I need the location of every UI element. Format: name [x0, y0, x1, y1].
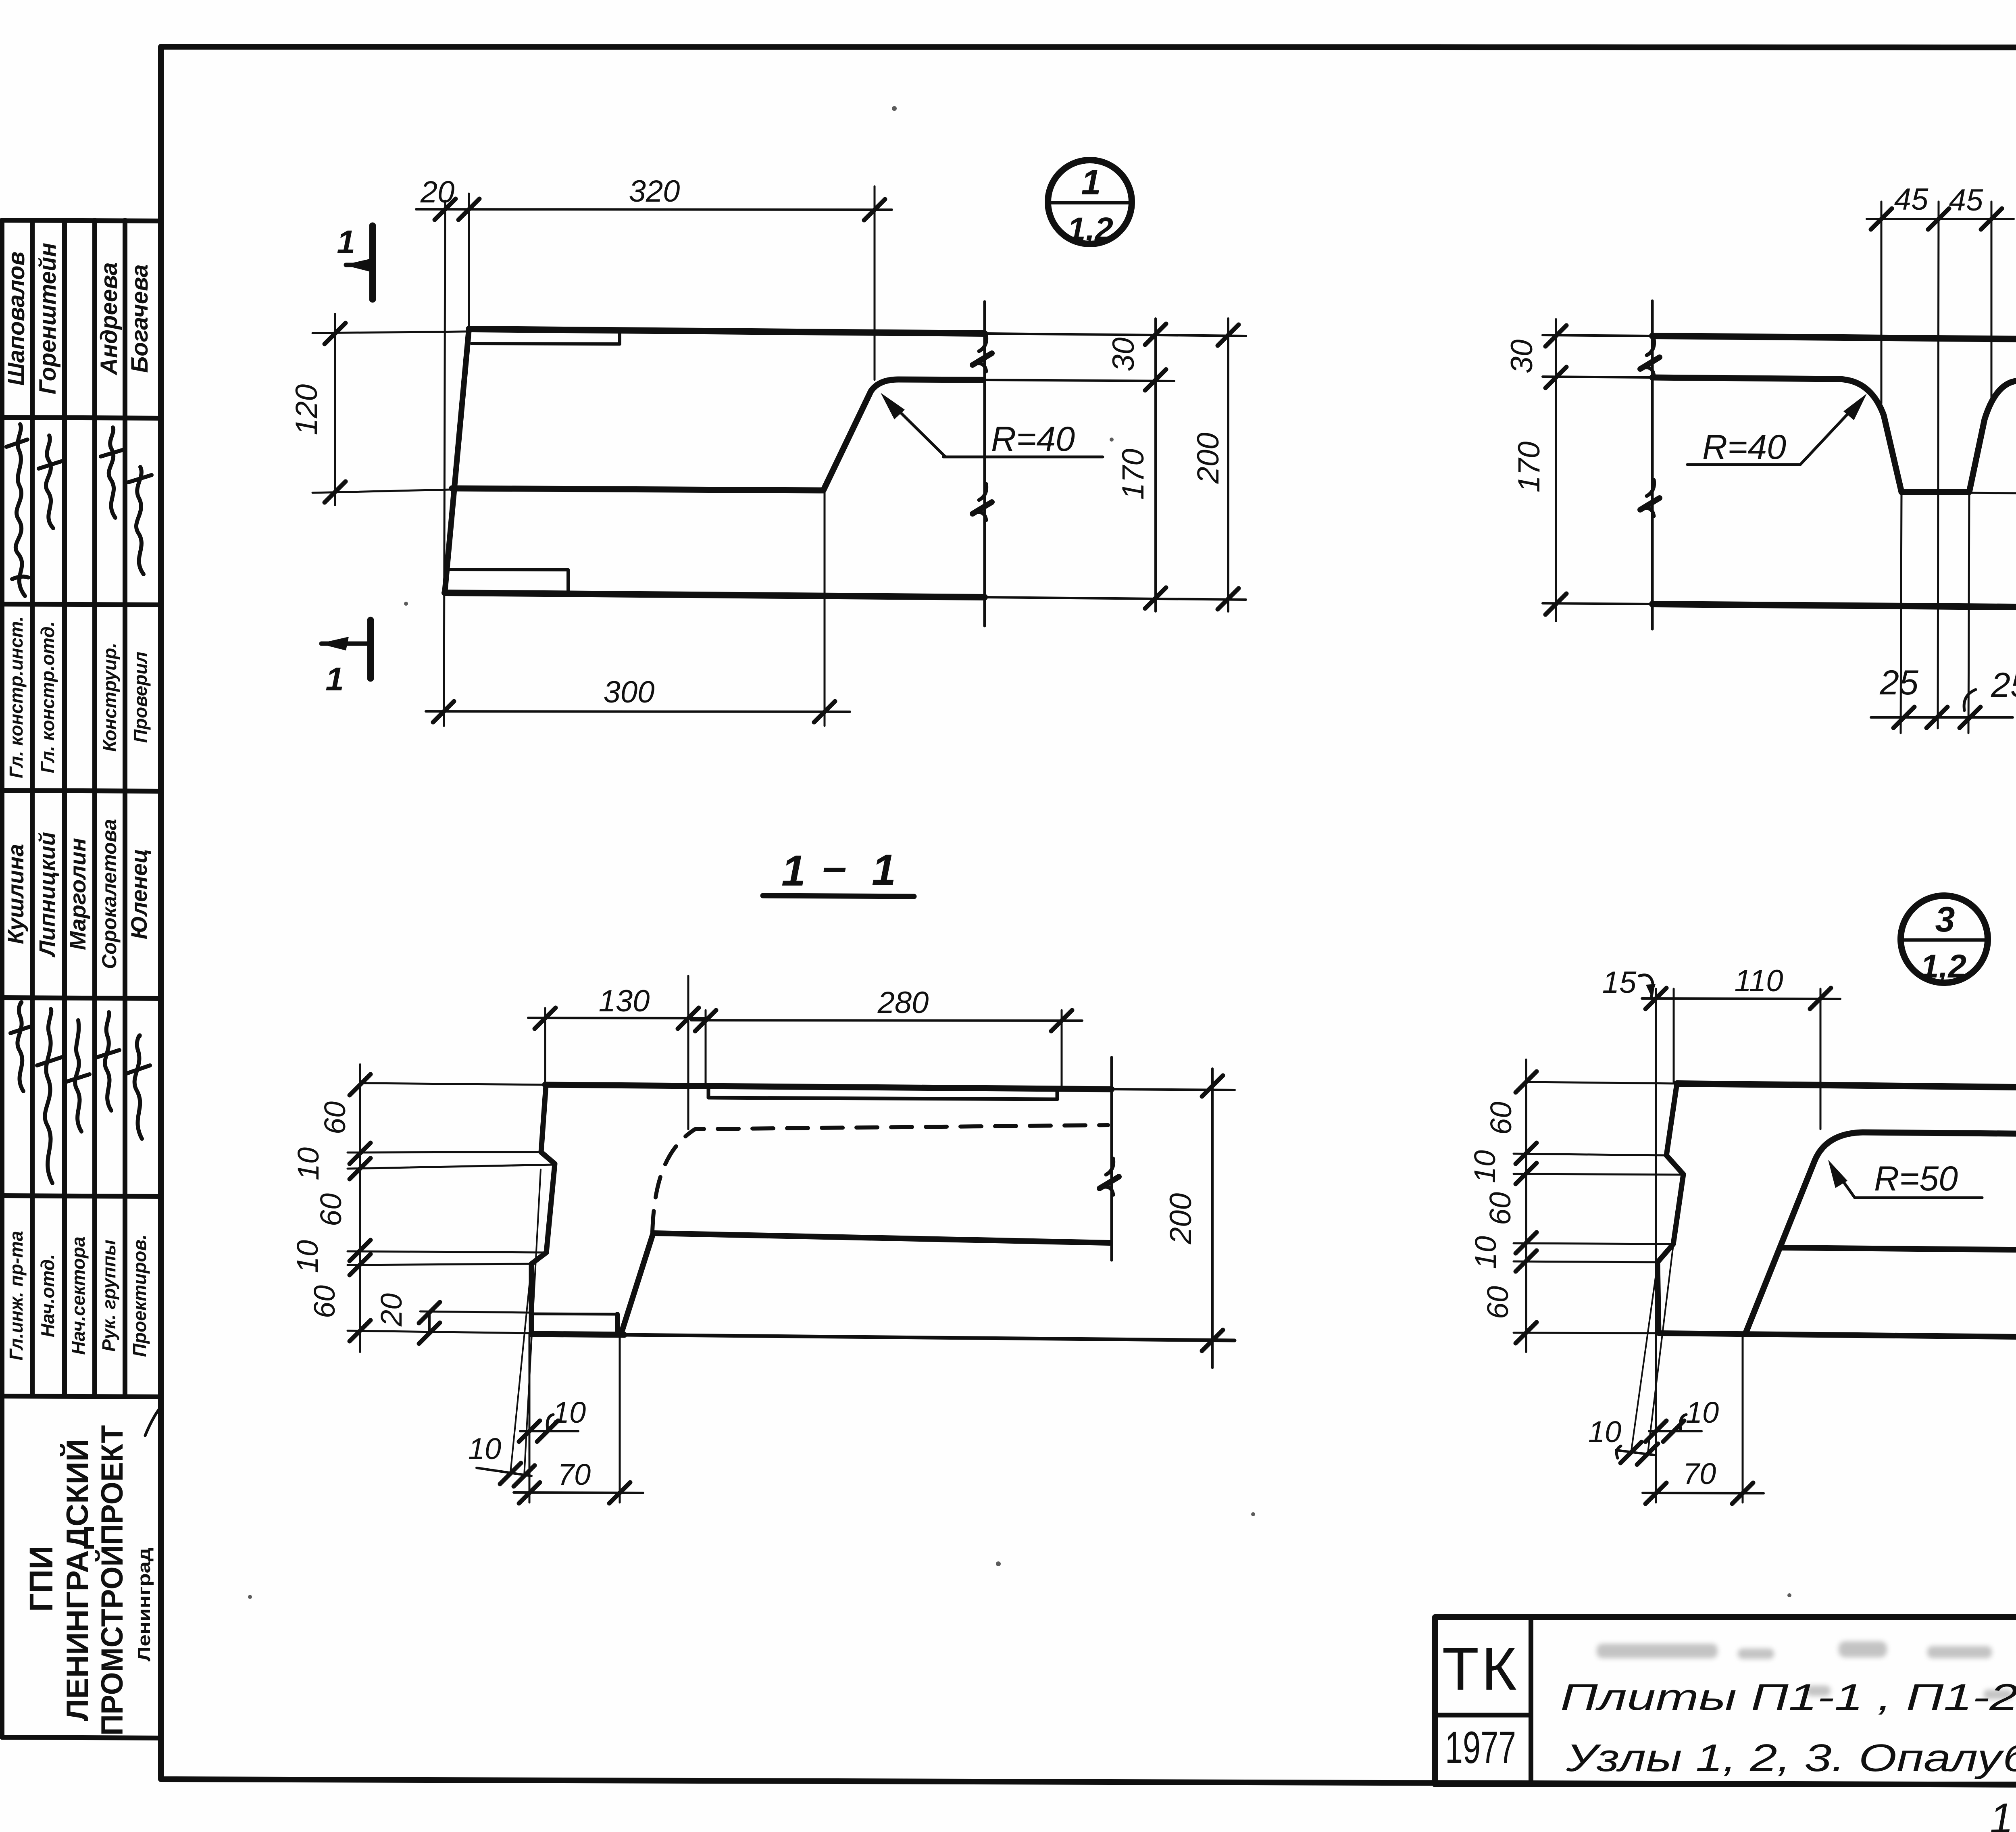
break line with zigzags: [973, 302, 992, 626]
leader arrow R=40 left: [1687, 394, 1867, 465]
extension line top-left corner: [1673, 989, 1675, 1082]
svg-text:Юленец: Юленец: [126, 849, 152, 940]
svg-text:1: 1: [325, 661, 344, 698]
section middle surface: [653, 1233, 1110, 1243]
plate left edge: [445, 329, 469, 593]
leader hook of 15: [1639, 975, 1656, 997]
svg-text:10: 10: [1468, 1150, 1502, 1183]
dimension text 300: [604, 675, 655, 709]
foot step: [531, 1314, 617, 1334]
dimension line 45 45: [1867, 208, 2014, 229]
hook of lower 10: [1616, 1446, 1621, 1458]
label 70: [558, 1458, 591, 1491]
detail circle 3: [1901, 896, 1988, 983]
signatures group 1: [10, 1002, 150, 1183]
vertical extension 70 right: [1742, 1334, 1744, 1503]
svg-text:10: 10: [468, 1432, 501, 1465]
svg-text:3: 3: [1935, 899, 1955, 939]
top rabbet lip: [472, 332, 620, 344]
label 200: [1164, 1193, 1198, 1245]
leader arrow R=50: [1828, 1160, 1982, 1198]
svg-text:130: 130: [599, 984, 650, 1018]
svg-text:Ленинград: Ленинград: [134, 1548, 154, 1661]
svg-text:ЛЕНИНГРАДСКИЙ: ЛЕНИНГРАДСКИЙ: [60, 1439, 95, 1721]
bottom-left step: [446, 569, 568, 594]
right break edge with zigzag: [1100, 1057, 1119, 1260]
svg-text:1: 1: [1081, 162, 1101, 202]
left extension lines: [348, 1152, 555, 1333]
left dimension line 30/170: [1545, 319, 1566, 621]
svg-text:1: 1: [781, 846, 806, 895]
TK logo: [1442, 1635, 1519, 1703]
names column 2: [3, 243, 153, 394]
label R=40 left: [1702, 428, 1786, 467]
plate top surface (узел 1): [469, 329, 1246, 336]
dimension text 280: [877, 986, 929, 1020]
svg-text:R=40: R=40: [1702, 428, 1786, 467]
rib slant edge: [621, 1233, 653, 1334]
svg-text:R=40: R=40: [991, 420, 1075, 459]
svg-text:ГПИ: ГПИ: [23, 1546, 60, 1612]
drawing title line 1: [1560, 1677, 2016, 1718]
faint stamp smudge: [1597, 1640, 2016, 1699]
section marker label 1 top: [337, 224, 355, 261]
dimension line 15/110: [1642, 988, 1840, 1009]
extension line 320 right end: [874, 186, 876, 380]
svg-text:10: 10: [291, 1240, 324, 1273]
section marker label 1 bottom: [325, 661, 344, 698]
dimension text 110: [1734, 964, 1783, 998]
label 200: [1191, 433, 1225, 484]
svg-text:Липницкий: Липницкий: [34, 832, 60, 958]
svg-text:60: 60: [1481, 1286, 1514, 1319]
section title 1-1: [781, 842, 896, 895]
svg-text:200: 200: [1191, 433, 1225, 484]
job titles column 2: [6, 616, 151, 778]
section title underline: [763, 896, 914, 896]
label R=50: [1874, 1159, 1958, 1198]
dimension texts 45 45: [1894, 182, 1983, 217]
dimension line 130: [528, 1008, 705, 1029]
svg-text:60: 60: [1484, 1102, 1518, 1135]
dimension 20 foot height: [419, 1302, 529, 1344]
svg-text:15: 15: [1602, 965, 1637, 1000]
svg-text:70: 70: [558, 1458, 591, 1491]
left extension lines: [1514, 1154, 1683, 1333]
label 30 left: [1505, 340, 1539, 374]
table grid lines: [2, 220, 161, 1738]
svg-text:110: 110: [1734, 964, 1783, 998]
right dimension line 200: [1202, 1069, 1223, 1368]
detail circle 1 numbers: [1067, 162, 1113, 248]
svg-text:R=50: R=50: [1874, 1159, 1958, 1198]
label R=40: [991, 420, 1075, 459]
dimension line 20 / 320: [416, 199, 892, 220]
title block outer border: [1435, 1617, 2016, 1784]
svg-text:10: 10: [553, 1396, 586, 1429]
left chain labels: [1468, 1102, 1518, 1319]
hook of upper 10: [1680, 1415, 1686, 1429]
svg-text:16189-02: 16189-02: [1989, 1791, 2016, 1832]
svg-text:70: 70: [1683, 1457, 1716, 1490]
dimension text 20: [420, 175, 455, 209]
dimension line 70: [1643, 1483, 1764, 1504]
svg-text:Сорокалетова: Сорокалетова: [98, 819, 121, 969]
svg-text:1,2: 1,2: [1067, 211, 1113, 248]
plate bottom surface (узел 3): [1659, 1333, 2016, 1339]
right dimension line 30/170: [1145, 319, 1166, 611]
label 170 left: [1512, 442, 1546, 493]
extension line top-left corner: [468, 194, 470, 327]
dimension 120 left: [312, 314, 468, 505]
svg-text:25: 25: [1879, 663, 1919, 702]
stray pen stroke near Проектиров: [145, 1407, 160, 1436]
extension lines 25 dimension: [1901, 493, 1969, 733]
section left edge profile: [531, 1086, 555, 1334]
section top surface: [362, 1083, 1235, 1090]
detail circle 3 numbers: [1920, 899, 1966, 985]
dimension text 320: [629, 174, 680, 208]
plate middle surface: [452, 488, 823, 490]
plate left edge profile (узел 3): [1658, 1084, 1683, 1333]
plate bottom surface: [445, 593, 1246, 600]
svg-text:ПРОМСТРОЙПРОЕКТ: ПРОМСТРОЙПРОЕКТ: [95, 1425, 129, 1736]
svg-text:60: 60: [318, 1101, 352, 1134]
slanted extensions to bottom dims: [510, 1169, 541, 1476]
dimension line 10 upper: [1645, 1421, 1702, 1442]
plate top surface (узел 2): [1543, 335, 2016, 342]
slant to ledge with fillet R40: [823, 379, 1174, 490]
label 170: [1116, 449, 1150, 500]
svg-text:Богачева: Богачева: [127, 264, 153, 373]
svg-text:Марголин: Марголин: [65, 838, 90, 950]
plate soffit with joint notch: [1543, 377, 2016, 492]
svg-text:Проверил: Проверил: [130, 652, 151, 743]
extension lines top dims: [545, 976, 1062, 1129]
svg-text:Нач.сектора: Нач.сектора: [68, 1236, 89, 1355]
label 30: [1106, 338, 1141, 372]
svg-text:10: 10: [1469, 1236, 1502, 1269]
svg-text:25: 25: [1991, 666, 2016, 704]
extension line left corner projection: [444, 201, 445, 726]
svg-text:60: 60: [314, 1193, 348, 1226]
svg-text:10: 10: [292, 1147, 325, 1180]
svg-text:Рук. группы: Рук. группы: [98, 1240, 119, 1352]
svg-text:Горенштейн: Горенштейн: [35, 243, 61, 394]
svg-text:30: 30: [1505, 340, 1539, 374]
svg-text:–: –: [823, 842, 847, 891]
institute name block: [23, 1425, 154, 1736]
left break line with zigzags: [1640, 301, 1660, 629]
svg-text:Гл.инж. пр-та: Гл.инж. пр-та: [6, 1231, 27, 1360]
svg-text:Нач.отд.: Нач.отд.: [37, 1254, 58, 1337]
label 10 upper: [553, 1396, 586, 1429]
svg-text:Андреева: Андреева: [96, 262, 122, 375]
label 20: [375, 1293, 408, 1327]
svg-text:1: 1: [337, 224, 355, 261]
job titles column 1: [6, 1231, 150, 1360]
label 10 upper: [1686, 1396, 1719, 1429]
svg-text:300: 300: [604, 675, 655, 709]
vertical extensions to bottom dims: [529, 1335, 620, 1503]
svg-text:10: 10: [1588, 1415, 1621, 1449]
svg-text:20: 20: [420, 175, 455, 209]
svg-text:10: 10: [1686, 1396, 1719, 1429]
dimension line 25 25: [1871, 707, 2013, 728]
svg-text:Конструир.: Конструир.: [99, 643, 120, 752]
svg-text:170: 170: [1512, 442, 1546, 493]
small leader hook of right 25: [1964, 690, 1976, 711]
dimension line 70: [514, 1482, 643, 1503]
svg-text:Плиты П1-1 , П1-2 , П2-1: Плиты П1-1 , П1-2 , П2-1 , П2-2: [1560, 1677, 2016, 1718]
left dimension chain 60/10/60/10/60: [350, 1065, 371, 1352]
dimension line 300: [426, 490, 850, 726]
label 10 lower: [468, 1432, 501, 1465]
left chain labels: [291, 1101, 352, 1318]
svg-text:30: 30: [1106, 338, 1141, 372]
svg-text:280: 280: [877, 986, 929, 1020]
svg-text:120: 120: [289, 384, 324, 436]
svg-text:Гл. констр.отд.: Гл. констр.отд.: [37, 621, 58, 773]
drawing title line 2: [1566, 1736, 2016, 1780]
right dimension line 200: [1218, 319, 1239, 611]
svg-text:320: 320: [629, 174, 680, 208]
dimension text 130: [599, 984, 650, 1018]
svg-text:ТК: ТК: [1442, 1635, 1519, 1703]
svg-text:45: 45: [1949, 183, 1983, 217]
svg-text:45: 45: [1894, 182, 1929, 217]
svg-text:Гл. констр.инст.: Гл. констр.инст.: [6, 616, 27, 778]
title block inner lines: [1435, 1617, 2016, 1784]
label 70: [1683, 1457, 1716, 1490]
names column 1: [3, 819, 152, 969]
extension lines of 45 dimension: [1881, 202, 1991, 403]
detail circle 1: [1048, 160, 1132, 244]
svg-text:170: 170: [1116, 449, 1150, 500]
dimension text 120: [289, 384, 324, 436]
middle surface (узел 3): [1780, 1248, 2016, 1251]
label 10 lower: [1588, 1415, 1621, 1449]
svg-text:1977: 1977: [1445, 1722, 1516, 1773]
scan speckles: [248, 101, 2016, 1599]
plate top surface (узел 3): [1529, 1082, 2016, 1089]
slanted extensions to bottom dims: [1631, 1245, 1673, 1456]
dimension text 15: [1602, 965, 1637, 1000]
extension line 110 right end: [1820, 989, 1822, 1129]
rib slant with fillet R50: [1745, 1132, 2016, 1334]
section cut marker 1 top: [344, 226, 373, 299]
svg-text:200: 200: [1164, 1193, 1198, 1245]
year 1977: [1445, 1722, 1516, 1773]
dimension texts 25 25: [1879, 663, 2016, 704]
dimension line 280: [691, 1010, 1082, 1031]
section cut marker 1 bottom: [319, 620, 371, 678]
notch bottom extension line: [1969, 493, 2016, 496]
dimension line 10 upper: [519, 1421, 578, 1442]
svg-text:Шаповалов: Шаповалов: [3, 252, 29, 386]
top recess 280 wide: [708, 1087, 1057, 1099]
long extension line left edge projection: [1655, 989, 1657, 1503]
signatures group 2: [6, 424, 152, 596]
handwritten document number 16189-02 9: [1989, 1791, 2016, 1832]
svg-text:Узлы 1, 2, 3. Опалубка.: Узлы 1, 2, 3. Опалубка.: [1566, 1736, 2016, 1780]
svg-text:60: 60: [1483, 1192, 1517, 1225]
svg-text:60: 60: [308, 1285, 341, 1318]
leader arrow R=40: [881, 393, 1103, 457]
hook of upper 10: [547, 1415, 553, 1429]
svg-text:Кушлина: Кушлина: [3, 844, 28, 944]
svg-text:Проектиров.: Проектиров.: [129, 1234, 150, 1357]
plate bottom surface (узел 2): [1543, 603, 2016, 610]
svg-text:20: 20: [375, 1293, 408, 1327]
left dimension chain 60/10/60/10/60: [1516, 1060, 1537, 1352]
svg-text:1,2: 1,2: [1920, 948, 1966, 985]
svg-text:1: 1: [872, 845, 896, 894]
notch centre line: [1938, 202, 1939, 728]
hidden fillet line (dashed): [652, 1125, 1108, 1232]
dimension line 10 lower: [1616, 1442, 1658, 1465]
dimension line 10 lower: [477, 1463, 535, 1486]
section bottom surface: [531, 1334, 1235, 1340]
